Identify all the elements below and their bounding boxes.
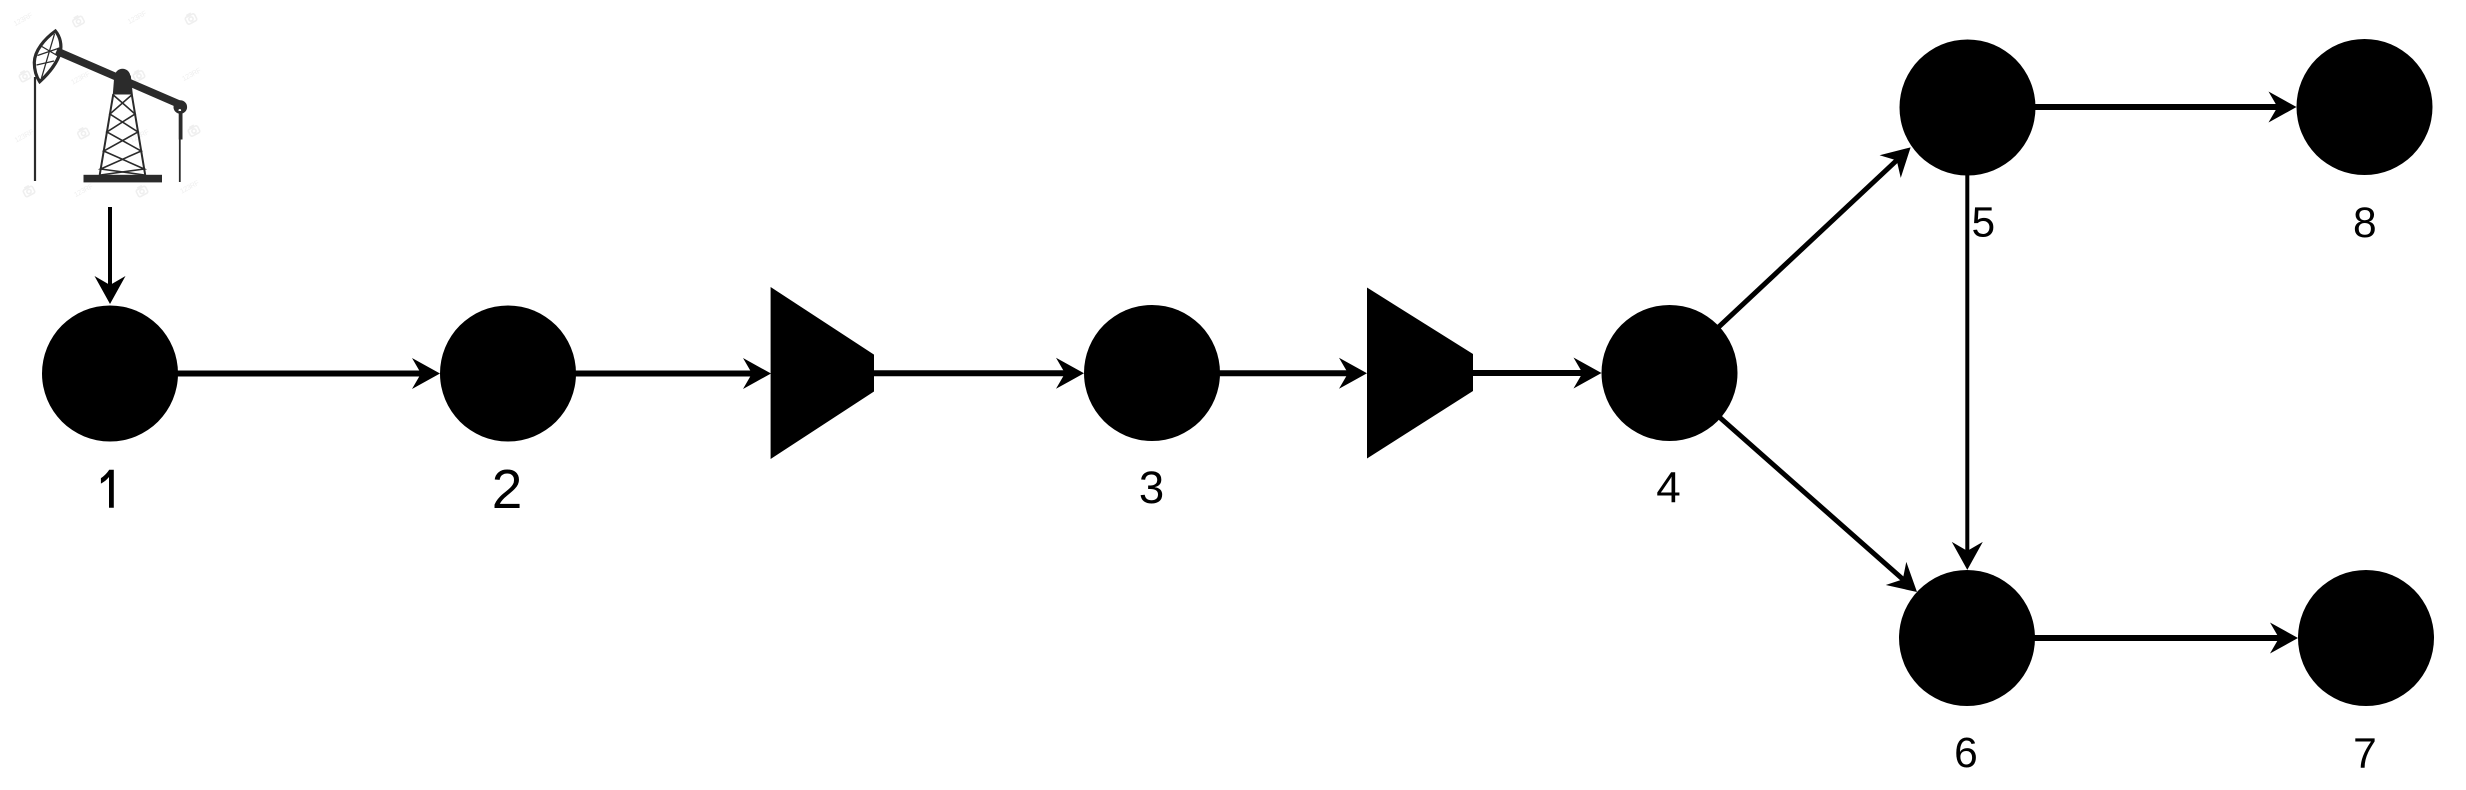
arrowhead into node 6 (diagonal) bbox=[1886, 562, 1928, 604]
pumpjack base bbox=[84, 175, 163, 183]
watermark camera 3 bbox=[18, 69, 31, 82]
edge 5-8 bbox=[1968, 92, 2297, 123]
pumpjack pivot cap bbox=[115, 69, 131, 85]
watermark camera 2 bbox=[184, 12, 197, 25]
pumpjack crank rod thin bbox=[179, 140, 181, 183]
wire 3-C2 bbox=[1180, 370, 1349, 376]
pumpjack head hanger line bbox=[34, 77, 36, 181]
label 1 bbox=[101, 470, 114, 508]
edge 2-C1 bbox=[540, 358, 771, 389]
wire 5-8 bbox=[1968, 104, 2279, 110]
wire 4-5 bbox=[1670, 160, 1898, 373]
pumpjack tower right rail bbox=[132, 94, 146, 175]
edge 4-5 bbox=[1670, 136, 1922, 373]
arrowhead into node 2 bbox=[412, 358, 440, 389]
arrowhead into compressor C1 bbox=[743, 358, 771, 389]
watermark camera 7 bbox=[22, 184, 35, 197]
node 4 bbox=[1602, 305, 1738, 441]
watermark grid bbox=[12, 8, 203, 199]
compressor C2 bbox=[1367, 288, 1473, 459]
arrowhead into compressor C2 bbox=[1339, 358, 1367, 389]
arrowhead into node 1 bbox=[95, 276, 126, 304]
watermark camera 1 bbox=[71, 14, 84, 27]
wire 4-6 bbox=[1670, 373, 1904, 579]
wire C1-3 bbox=[860, 370, 1066, 376]
pumpjack crank hole bbox=[179, 109, 182, 112]
edge 6-7 bbox=[1967, 623, 2298, 654]
svg-text:2: 2 bbox=[492, 458, 523, 520]
node 8 bbox=[2297, 39, 2433, 175]
node 5 bbox=[1900, 40, 2036, 176]
pumpjack tower left rail bbox=[100, 94, 114, 175]
svg-text:6: 6 bbox=[1954, 730, 1978, 777]
watermark camera 5 bbox=[76, 126, 89, 139]
wire C2-4 bbox=[1460, 370, 1584, 376]
edge source to node 1 bbox=[95, 207, 126, 304]
watermark camera 8 bbox=[135, 184, 148, 197]
compressor C1 bbox=[771, 287, 874, 459]
pumpjack tower lattice A bbox=[101, 95, 145, 175]
arrowhead into node 5 bbox=[1880, 136, 1922, 178]
pumpjack horse head lattice bbox=[37, 34, 60, 78]
watermark camera 6 bbox=[187, 124, 200, 137]
pumpjack crank end bbox=[174, 100, 188, 114]
node 2 bbox=[440, 306, 576, 442]
pumpjack pivot block bbox=[113, 76, 133, 95]
wire source-1 bbox=[108, 207, 112, 288]
arrowhead into node 8 bbox=[2269, 92, 2297, 123]
edge C1-3 bbox=[860, 358, 1084, 389]
node 7 bbox=[2298, 570, 2434, 706]
wire 2-C1 bbox=[540, 371, 753, 377]
svg-text:3: 3 bbox=[1139, 462, 1164, 513]
edge 1-2 bbox=[150, 358, 440, 389]
node 3 bbox=[1084, 305, 1220, 441]
edge 5-6 bbox=[1952, 107, 1983, 570]
arrowhead into node 7 bbox=[2270, 623, 2298, 654]
node 1 bbox=[42, 306, 178, 442]
node 6 bbox=[1899, 570, 2035, 706]
svg-text:5: 5 bbox=[1971, 200, 1995, 247]
pumpjack crank rod thick bbox=[179, 111, 183, 140]
pumpjack icon bbox=[34, 31, 187, 182]
edge 4-6 bbox=[1670, 373, 1928, 604]
arrowhead into node 4 bbox=[1574, 358, 1602, 389]
pumpjack horse head bbox=[34, 31, 61, 82]
svg-text:8: 8 bbox=[2353, 200, 2377, 247]
svg-text:7: 7 bbox=[2353, 731, 2377, 778]
wire 6-7 bbox=[1967, 635, 2280, 641]
wire 1-2 bbox=[150, 371, 422, 377]
pumpjack tower lattice B bbox=[101, 95, 145, 175]
svg-text:4: 4 bbox=[1656, 464, 1680, 513]
pumpjack walking beam bbox=[57, 51, 181, 105]
wire 5-6 bbox=[1965, 107, 1969, 552]
arrowhead into node 3 bbox=[1056, 358, 1084, 389]
watermark camera 4 bbox=[132, 69, 145, 82]
edge C2-4 bbox=[1460, 358, 1602, 389]
arrowhead into node 6 (vertical) bbox=[1952, 542, 1983, 570]
edge 3-C2 bbox=[1180, 358, 1367, 389]
